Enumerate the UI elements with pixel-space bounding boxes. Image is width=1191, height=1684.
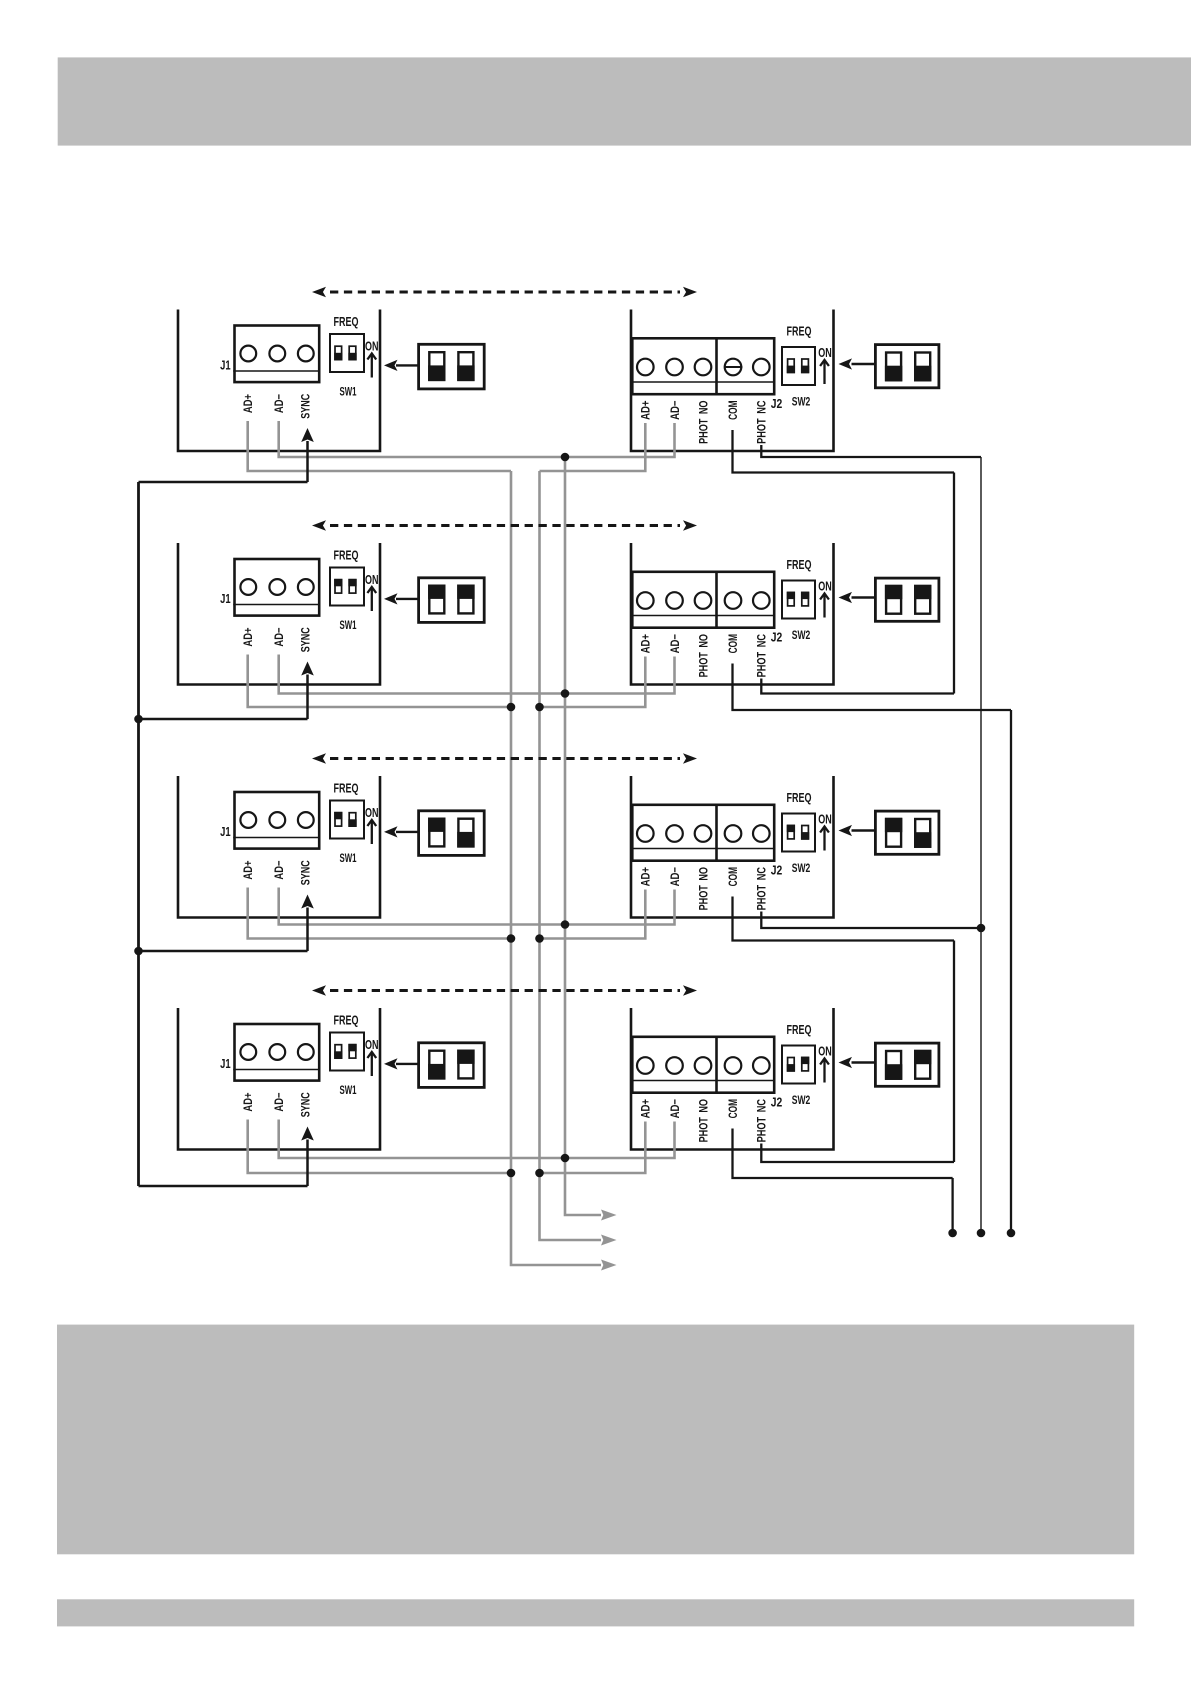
- svg-text:COM: COM: [726, 1099, 740, 1118]
- svg-text:J2: J2: [771, 863, 783, 878]
- svg-text:AD−: AD−: [272, 861, 286, 880]
- svg-text:SW1: SW1: [340, 385, 357, 399]
- svg-text:AD−: AD−: [668, 401, 682, 420]
- svg-text:ON: ON: [818, 812, 832, 827]
- svg-text:J1: J1: [220, 591, 231, 606]
- svg-text:AD−: AD−: [272, 394, 286, 413]
- svg-text:AD+: AD+: [639, 401, 653, 420]
- svg-text:PHOT NC: PHOT NC: [755, 400, 769, 444]
- svg-text:FREQ: FREQ: [334, 1013, 359, 1028]
- svg-text:AD−: AD−: [668, 1099, 682, 1118]
- svg-text:FREQ: FREQ: [787, 557, 812, 572]
- svg-text:AD+: AD+: [241, 1093, 255, 1112]
- svg-text:SYNC: SYNC: [298, 394, 312, 419]
- svg-text:J2: J2: [771, 1095, 783, 1110]
- svg-text:PHOT NC: PHOT NC: [755, 867, 769, 911]
- svg-text:AD+: AD+: [639, 867, 653, 886]
- svg-text:ON: ON: [818, 345, 832, 360]
- svg-text:FREQ: FREQ: [334, 314, 359, 329]
- svg-text:SW1: SW1: [340, 618, 357, 632]
- svg-text:ON: ON: [365, 1037, 379, 1052]
- svg-text:PHOT NO: PHOT NO: [696, 401, 710, 444]
- svg-text:SW2: SW2: [792, 861, 811, 875]
- svg-text:ON: ON: [365, 805, 379, 820]
- svg-text:SYNC: SYNC: [298, 627, 312, 652]
- svg-text:SW2: SW2: [792, 395, 811, 409]
- svg-text:AD−: AD−: [668, 867, 682, 886]
- svg-text:AD−: AD−: [272, 628, 286, 647]
- svg-text:SW1: SW1: [340, 1083, 357, 1097]
- svg-text:ON: ON: [365, 572, 379, 587]
- svg-text:ON: ON: [818, 1044, 832, 1059]
- svg-text:AD+: AD+: [241, 628, 255, 647]
- svg-text:PHOT NO: PHOT NO: [696, 634, 710, 677]
- svg-text:SYNC: SYNC: [298, 1092, 312, 1117]
- svg-text:AD−: AD−: [668, 634, 682, 653]
- svg-text:J1: J1: [220, 357, 231, 372]
- svg-text:J1: J1: [220, 824, 231, 839]
- svg-text:COM: COM: [726, 401, 740, 420]
- svg-text:COM: COM: [726, 634, 740, 653]
- svg-text:FREQ: FREQ: [334, 548, 359, 563]
- svg-text:FREQ: FREQ: [787, 1022, 812, 1037]
- svg-text:SYNC: SYNC: [298, 860, 312, 885]
- svg-text:SW2: SW2: [792, 1093, 811, 1107]
- svg-text:AD+: AD+: [639, 634, 653, 653]
- svg-text:FREQ: FREQ: [787, 790, 812, 805]
- svg-text:SW2: SW2: [792, 628, 811, 642]
- svg-text:FREQ: FREQ: [334, 781, 359, 796]
- svg-text:ON: ON: [818, 579, 832, 594]
- svg-text:J2: J2: [771, 396, 783, 411]
- svg-text:J2: J2: [771, 630, 783, 645]
- svg-text:ON: ON: [365, 339, 379, 354]
- svg-text:PHOT NC: PHOT NC: [755, 1099, 769, 1143]
- svg-text:AD+: AD+: [241, 861, 255, 880]
- svg-text:PHOT NO: PHOT NO: [696, 1099, 710, 1142]
- svg-text:AD+: AD+: [241, 394, 255, 413]
- svg-text:FREQ: FREQ: [787, 324, 812, 339]
- svg-text:AD−: AD−: [272, 1093, 286, 1112]
- svg-text:PHOT NO: PHOT NO: [696, 867, 710, 910]
- svg-text:AD+: AD+: [639, 1099, 653, 1118]
- svg-text:J1: J1: [220, 1056, 231, 1071]
- svg-text:PHOT NC: PHOT NC: [755, 634, 769, 678]
- svg-text:COM: COM: [726, 867, 740, 886]
- svg-text:SW1: SW1: [340, 851, 357, 865]
